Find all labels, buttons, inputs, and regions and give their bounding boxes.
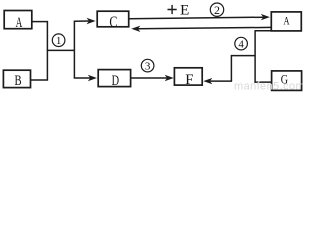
arrowhead into A-right bbox=[261, 14, 270, 20]
box G bbox=[272, 71, 302, 91]
svg-text:3: 3 bbox=[145, 61, 151, 73]
box F bbox=[174, 68, 202, 88]
wire split vertical bbox=[73, 22, 75, 79]
label +E bbox=[168, 5, 177, 14]
wire down toward F bbox=[230, 55, 232, 81]
box C bbox=[97, 11, 129, 30]
box D bbox=[98, 70, 130, 89]
wire left into F bbox=[209, 80, 232, 82]
wire connector node 1 bbox=[47, 49, 75, 51]
wire node 4 connector bbox=[231, 55, 255, 57]
node 2 circled bbox=[210, 3, 223, 17]
box A (right) bbox=[271, 12, 301, 31]
arrowhead into D bbox=[88, 75, 97, 81]
wire right into G bbox=[254, 81, 271, 83]
svg-text:E: E bbox=[180, 2, 189, 18]
node 1 circled bbox=[52, 34, 65, 47]
wire step left bbox=[255, 30, 272, 32]
node 3 circled bbox=[141, 59, 154, 72]
arrowhead into C right bbox=[131, 26, 140, 32]
svg-text:C: C bbox=[109, 14, 117, 31]
arrowhead into F right bbox=[203, 78, 212, 84]
svg-text:D: D bbox=[112, 71, 119, 89]
svg-text:manfen5.com: manfen5.com bbox=[234, 81, 303, 93]
svg-text:B: B bbox=[15, 73, 22, 89]
svg-text:4: 4 bbox=[238, 39, 244, 51]
box B bbox=[3, 70, 30, 88]
box A (left) bbox=[4, 11, 32, 31]
wire into D bbox=[74, 77, 91, 79]
svg-text:2: 2 bbox=[214, 3, 220, 17]
wire down to node 4 bbox=[254, 30, 256, 83]
arrowhead into C bbox=[87, 18, 96, 24]
wire C to A-right bbox=[129, 17, 264, 19]
wire into C bbox=[74, 20, 90, 22]
wire A-left output bbox=[32, 21, 48, 23]
wire join vertical A/B bbox=[46, 21, 48, 81]
arrowhead into F left bbox=[165, 75, 174, 81]
wire D to F bbox=[131, 77, 168, 79]
svg-text:A: A bbox=[16, 14, 23, 31]
wire feedback A-right to C bbox=[137, 27, 271, 28]
svg-text:F: F bbox=[185, 72, 193, 88]
svg-text:A: A bbox=[283, 15, 290, 28]
node 4 circled bbox=[235, 37, 248, 50]
svg-text:1: 1 bbox=[56, 35, 62, 47]
wire B output bbox=[31, 79, 48, 81]
